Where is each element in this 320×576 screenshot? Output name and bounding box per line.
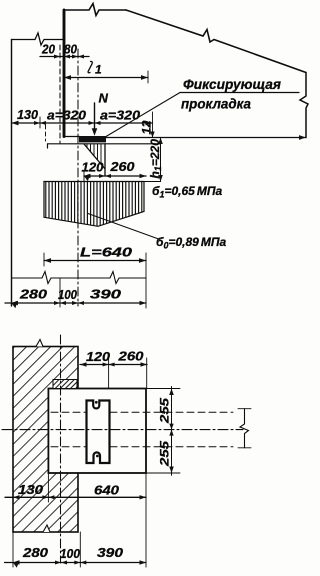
- svg-text:h1=220: h1=220: [148, 139, 163, 179]
- extension dashed line x=60: [59, 45, 61, 143]
- break on wall bottom edge: [43, 525, 50, 532]
- svg-text:прокладка: прокладка: [181, 96, 251, 112]
- wall hatched band: [13, 347, 78, 533]
- svg-text:80: 80: [64, 42, 78, 57]
- label l1: [88, 61, 92, 72]
- svg-text:255: 255: [158, 398, 172, 425]
- anchor plate with notches: [87, 401, 110, 464]
- svg-text:12: 12: [140, 120, 154, 134]
- dim line 120/260: [84, 175, 146, 177]
- horizontal main axis dash-dot: [2, 429, 243, 431]
- arrow at slab edge: [299, 135, 306, 140]
- plate top dot: [95, 401, 98, 404]
- stress hatch vertical lines: [46, 181, 142, 227]
- pad strip in plan (dense hatch): [53, 380, 77, 389]
- bearing element rectangle (plan): [48, 389, 146, 474]
- wall top line: [48, 144, 161, 148]
- wall bottom cut line with two breaks: [12, 272, 147, 284]
- svg-text:100: 100: [58, 287, 78, 302]
- pad thickness 12 dimension: [152, 112, 154, 138]
- dim line 130 / a=320 / a=320: [12, 122, 153, 124]
- slab right edge with break: [300, 73, 308, 138]
- leader to pad label: [106, 93, 180, 137]
- crushing wedge hatch: [87, 144, 101, 164]
- svg-text:a=320: a=320: [100, 108, 141, 123]
- svg-text:280: 280: [22, 545, 49, 560]
- force N arrow: [94, 103, 96, 131]
- axis dash-dot x=78: [77, 49, 79, 306]
- break on wall top edge: [36, 340, 43, 347]
- svg-text:120: 120: [82, 160, 105, 175]
- svg-text:640: 640: [94, 483, 120, 498]
- sloped roof line with break: [126, 10, 306, 73]
- bottom dim 280/100/390 lower: [5, 562, 147, 564]
- wedge hypotenuse: [84, 144, 105, 169]
- top horizontal cut line left with break: [12, 33, 65, 45]
- bottom dim 280/100/390: [5, 302, 146, 304]
- svg-text:390: 390: [97, 545, 124, 560]
- wedge right edge: [104, 144, 106, 176]
- right 255/255 dimension: [171, 387, 173, 476]
- svg-text:255: 255: [158, 441, 172, 468]
- svg-text:100: 100: [60, 546, 81, 561]
- svg-text:120: 120: [86, 349, 111, 364]
- svg-text:130: 130: [17, 107, 39, 122]
- slab bottom line / dimension line to edge: [106, 137, 306, 139]
- right break line with zigzag: [240, 409, 249, 448]
- L=640 dim: [44, 260, 146, 262]
- svg-text:L=640: L=640: [80, 245, 133, 260]
- h1=220 dimension: [160, 138, 162, 182]
- left border wall outer face: [11, 40, 13, 307]
- plate bottom dot: [96, 455, 99, 458]
- sigma0 leader: [88, 214, 160, 240]
- stress diagram outline: [44, 182, 144, 227]
- dim line l1: [64, 77, 148, 79]
- ledge line under pad: [64, 136, 80, 138]
- svg-text:N: N: [99, 91, 109, 106]
- dim line 20/80: [40, 56, 89, 58]
- svg-text:a=320: a=320: [47, 108, 87, 123]
- stress top extension to h1: [144, 181, 161, 183]
- slab top horizontal with break: [64, 4, 126, 16]
- svg-text:20: 20: [41, 42, 56, 57]
- fixing pad (black): [79, 136, 106, 142]
- vertical axis dash-dot x=60.5: [60, 335, 62, 563]
- top dim 120/260: [80, 364, 147, 366]
- svg-text:280: 280: [19, 287, 48, 302]
- svg-text:1: 1: [95, 63, 102, 77]
- hidden dashed line lower: [51, 446, 86, 448]
- svg-text:260: 260: [117, 349, 144, 364]
- svg-text:130: 130: [18, 482, 44, 497]
- hidden dashed line upper: [51, 411, 86, 413]
- svg-text:260: 260: [109, 159, 135, 174]
- wall face (thick vertical): [63, 10, 66, 137]
- dim 130/640: [5, 496, 146, 498]
- svg-text:Фиксирующая: Фиксирующая: [183, 76, 281, 92]
- svg-text:390: 390: [90, 287, 122, 302]
